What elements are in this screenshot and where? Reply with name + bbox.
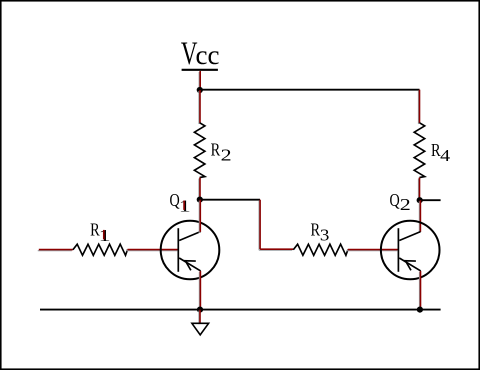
wire top rail down to R4 (418, 90, 419, 124)
wire Q1 emitter to ground rail (199, 271, 200, 311)
svg-text:cc: cc (196, 39, 220, 70)
transistor Q1 base bar (177, 228, 179, 272)
node junction dot at Vcc feed (197, 87, 203, 93)
wire Q2 emitter to ground rail (419, 271, 420, 311)
wire bottom ground rail (40, 309, 441, 311)
Vcc power rail bar (182, 69, 218, 71)
node junction dot Q2 emitter on rail (417, 307, 423, 313)
node junction dot Q1 collector (197, 197, 203, 203)
node junction dot Q1 emitter on rail (197, 307, 203, 313)
wire left input to R1 (38, 250, 73, 251)
svg-text:R: R (311, 220, 321, 240)
wire Q1 collector node to right jog (black) (200, 199, 260, 201)
wire Q1 collector into circle (199, 200, 200, 233)
wire jog to R3 (259, 249, 293, 250)
node junction dot Q2 collector (417, 197, 423, 203)
svg-text:2: 2 (400, 195, 411, 214)
wire top rail to R4 branch (200, 89, 420, 91)
label R4 (431, 140, 451, 165)
wire rail to ground symbol (199, 310, 200, 325)
label R1 (90, 219, 111, 245)
wire jog down (259, 200, 260, 251)
wire R4 to Q2 collector node (418, 178, 419, 202)
wire Vcc bar to top node (199, 71, 200, 91)
transistor Q2 circle (381, 221, 440, 280)
label R3 (311, 220, 330, 245)
transistor Q1 collector stroke (179, 232, 200, 241)
wire R3 to Q2 base (347, 250, 398, 251)
transistor Q2 collector stroke (399, 232, 420, 241)
svg-text:R: R (211, 139, 221, 159)
resistor R4 (414, 123, 425, 178)
ground (192, 323, 209, 335)
transistor Q1 emitter arrow (185, 261, 196, 271)
wire R1 to Q1 base (126, 250, 178, 251)
transistor Q2 emitter arrow (405, 261, 416, 271)
resistor R1 (73, 244, 128, 255)
node Vcc label (181, 36, 220, 72)
wire top node down to R2 (199, 90, 200, 124)
label Q2 (390, 190, 411, 214)
wire Q2 collector into circle (419, 200, 420, 233)
svg-text:Q: Q (390, 190, 400, 210)
wire R2 to Q1 collector node (199, 178, 200, 201)
transistor Q2 base bar (397, 228, 399, 272)
transistor Q1 circle (161, 221, 220, 280)
svg-text:4: 4 (440, 146, 451, 165)
transistor Q2 emitter stroke (399, 258, 420, 271)
resistor R2 (194, 123, 205, 178)
resistor R3 (293, 244, 348, 255)
transistor Q1 emitter stroke (179, 258, 200, 271)
svg-text:3: 3 (320, 225, 330, 244)
label Q1 (170, 190, 191, 216)
wire output stub (420, 199, 441, 201)
svg-text:2: 2 (221, 145, 232, 164)
label R2 (211, 139, 232, 164)
